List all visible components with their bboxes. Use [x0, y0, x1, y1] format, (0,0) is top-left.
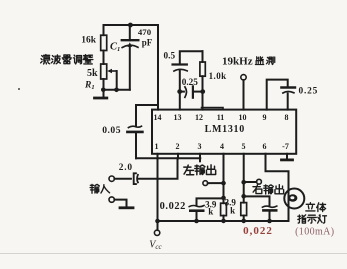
junction rail 0.022 left	[194, 219, 199, 224]
resistor 1.0k top lead	[202, 51, 204, 62]
svg-text:0.05: 0.05	[102, 125, 121, 136]
faint page rule	[0, 253, 347, 255]
terminal input ground	[109, 197, 114, 202]
label indicator lamp 指示灯	[298, 215, 327, 223]
label input 输入	[90, 184, 109, 193]
capacitor 2.0 curved plate	[136, 175, 139, 183]
svg-text:10: 10	[239, 113, 247, 122]
capacitor 0.5 curved plate	[174, 69, 187, 71]
ground input	[114, 200, 126, 207]
wire 19kHz terminal to pin10	[243, 80, 245, 110]
junction left output	[221, 181, 226, 186]
op-amp U1 LM1310 box	[152, 110, 296, 154]
junction rail pin1	[155, 219, 160, 224]
wire pin6 through lamp to rail	[266, 154, 289, 221]
capacitor 0.022 right bottom lead	[269, 211, 271, 221]
wire pin3 stub	[199, 154, 201, 162]
svg-text:12: 12	[195, 113, 203, 122]
capacitor 0.25 straight plate	[192, 86, 194, 97]
svg-text:6: 6	[263, 142, 267, 151]
svg-text:pF: pF	[142, 37, 153, 47]
svg-text:19kHz: 19kHz	[222, 56, 253, 68]
wire Vcc stub	[157, 221, 159, 230]
capacitor 0.25 right top plate	[281, 86, 295, 88]
capacitor 0.25 right bottom lead to pin8	[287, 94, 289, 110]
wire pin5 node to right 0.022	[244, 196, 270, 205]
svg-text:0.25: 0.25	[298, 86, 318, 96]
wire pin7 stub	[286, 154, 288, 159]
junction wiper bottom	[114, 88, 119, 93]
resistor 1.0k bottom lead	[202, 76, 204, 109]
terminal left output	[203, 181, 208, 186]
junction C1 top	[128, 23, 133, 28]
svg-text:0,022: 0,022	[243, 225, 273, 237]
svg-text:2: 2	[176, 142, 180, 151]
svg-text:13: 13	[174, 113, 182, 122]
capacitor 0.022 right wavy plate	[262, 206, 276, 207]
label left output 左输出	[184, 165, 216, 175]
ground	[103, 90, 105, 97]
svg-text:2.0: 2.0	[119, 163, 133, 173]
wire 16k top lead	[103, 25, 105, 35]
svg-text:14: 14	[154, 113, 162, 122]
resistor 3.9k right body	[241, 203, 247, 216]
svg-text:1: 1	[155, 142, 159, 151]
potentiometer R1 5k body	[101, 64, 107, 79]
resistor 16k	[101, 35, 107, 50]
label monitor 监测	[255, 57, 274, 65]
wire left output to pin4 wire	[208, 182, 224, 184]
terminal right output	[257, 179, 262, 184]
junction 0.022 left top	[221, 196, 226, 201]
capacitor 0.05 bottom plate	[127, 131, 142, 134]
junction rail 0.022 right	[267, 219, 272, 224]
capacitor 0.022 left elbow	[197, 198, 224, 205]
capacitor 0.022 right bottom plate	[263, 209, 276, 212]
resistor 3.9k left body	[221, 203, 227, 215]
svg-text:LM1310: LM1310	[205, 124, 245, 135]
capacitor C1 top plate	[122, 39, 139, 41]
capacitor 0.022 left wavy plate	[189, 206, 204, 207]
label stereo 立体	[306, 203, 326, 212]
wire R1 wiper down	[116, 71, 118, 90]
wire 16k to R1	[103, 51, 105, 65]
resistor 1.0k body	[200, 62, 205, 76]
terminal input signal	[109, 176, 114, 181]
svg-text:(100mA): (100mA)	[295, 227, 334, 238]
stray ink dot	[18, 88, 20, 90]
capacitor 0.5 top plate	[173, 63, 187, 65]
capacitor 2.0 bracket plate	[134, 173, 136, 184]
terminal Vcc	[154, 230, 159, 235]
capacitor 0.022 left bottom plate	[190, 209, 203, 212]
wire top rail from 16k over C1 then down to pin 14	[104, 25, 159, 110]
capacitor 0.05 bottom lead	[135, 133, 137, 159]
svg-text:5k: 5k	[87, 68, 98, 79]
junction pin13 node	[177, 89, 182, 94]
junction pin5 resistor top	[241, 194, 246, 199]
svg-text:8: 8	[285, 113, 289, 122]
capacitor 0.5 top lead and horizontal to 1.0k	[180, 51, 203, 64]
junction pin12 node	[200, 89, 205, 94]
capacitor 2.0 right lead hooking up to pin2 wire	[139, 158, 178, 178]
capacitor 0.25 right lead	[194, 91, 203, 93]
capacitor C1 470pF variable: top lead	[129, 25, 131, 40]
label right output 右输出	[253, 185, 284, 194]
svg-text:11: 11	[217, 113, 225, 122]
capacitor C1 curved plate	[122, 45, 138, 47]
svg-text:-7: -7	[282, 142, 289, 151]
svg-text:0.022: 0.022	[160, 201, 186, 212]
capacitor 0.05 wavy plate	[128, 126, 141, 127]
capacitor 0.25 right curved plate	[283, 91, 294, 93]
svg-text:0.25: 0.25	[182, 77, 198, 87]
wire pin1 down to rail	[157, 154, 159, 221]
svg-text:1.0k: 1.0k	[209, 71, 227, 81]
svg-text:5: 5	[242, 142, 246, 151]
junction rail 3.9k left	[221, 219, 226, 224]
svg-text:16k: 16k	[81, 36, 97, 46]
wire pin9 up and over	[267, 80, 288, 110]
resistor 3.9k right bottom lead	[243, 216, 245, 222]
junction right output node	[241, 180, 246, 185]
junction rail 3.9k right	[241, 219, 246, 224]
ground pin7 bar	[282, 158, 293, 161]
wire right output terminal	[244, 181, 257, 183]
svg-text:k: k	[208, 207, 213, 217]
capacitor 0.25 curved plate	[185, 87, 187, 97]
wire to pins 1 2 3	[136, 157, 200, 159]
svg-text:k: k	[230, 206, 235, 216]
capacitor 0.25 horizontal left lead	[180, 91, 184, 93]
capacitor C1 arrow and bottom lead	[129, 45, 131, 89]
svg-text:9: 9	[263, 113, 267, 122]
wire pin5 down	[243, 154, 245, 203]
wire jumper pin12 to pin11	[202, 108, 224, 110]
wire bottom rail	[158, 220, 289, 222]
svg-text:4: 4	[220, 142, 224, 151]
svg-text:0.5: 0.5	[164, 51, 176, 61]
terminal 19kHz output	[241, 75, 246, 80]
wire bottom of pot circuit	[104, 89, 130, 91]
svg-text:3: 3	[198, 142, 202, 151]
wiper arrow of R1	[110, 70, 117, 72]
wire pin2 stub	[177, 154, 179, 159]
svg-text:470: 470	[138, 27, 152, 37]
lamp stereo indicator	[284, 189, 304, 209]
label filter adjust 滤波器调整	[41, 55, 93, 64]
wire pin13 branch vertical	[179, 71, 181, 110]
wire R1 bottom lead	[103, 79, 105, 90]
capacitor 0.05 branch elbow to IC	[136, 105, 158, 126]
resistor 3.9k left bottom lead	[223, 216, 225, 221]
wire pin4 down	[223, 154, 225, 203]
junction pot bottom	[101, 88, 106, 93]
capacitor 2.0 left lead	[114, 178, 130, 180]
capacitor 0.022 left bottom lead	[196, 211, 198, 221]
